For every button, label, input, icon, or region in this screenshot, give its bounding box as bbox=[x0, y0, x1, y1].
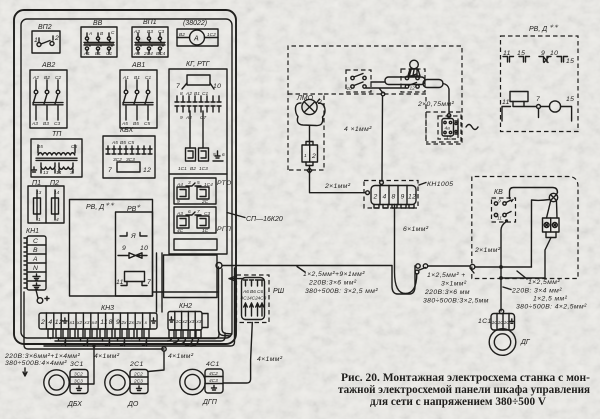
thermal relay РТО bbox=[174, 178, 232, 205]
svg-text:2х: 2х bbox=[128, 320, 135, 326]
limit switch КВ bbox=[492, 189, 516, 222]
connector РШ body bbox=[241, 278, 267, 320]
svg-text:РТО: РТО bbox=[217, 180, 232, 187]
circuit breaker АВ1 bbox=[120, 62, 157, 128]
svg-text:380÷500В:4×4мм²: 380÷500В:4×4мм² bbox=[5, 360, 67, 367]
svg-text:С: С bbox=[111, 30, 115, 36]
callout СП—16К20 bbox=[227, 213, 283, 224]
svg-text:КГ, РТГ: КГ, РТГ bbox=[186, 61, 211, 68]
wire fuse block down bbox=[545, 238, 551, 279]
svg-text:7: 7 bbox=[536, 96, 540, 103]
svg-text:х3: х3 bbox=[195, 319, 201, 325]
КН2 tab merge wires bbox=[168, 338, 199, 346]
motor ДО bbox=[105, 361, 148, 408]
svg-text:9: 9 bbox=[177, 199, 180, 205]
link bar 1 bbox=[385, 77, 425, 85]
svg-text:КБХ: КБХ bbox=[120, 127, 133, 134]
wire КВ down to bus bbox=[501, 222, 506, 311]
ammeter А (38022) bbox=[177, 20, 218, 46]
svg-text:ДГ: ДГ bbox=[520, 339, 531, 346]
svg-text:2×1мм²: 2×1мм² bbox=[474, 247, 501, 254]
junction to ДО bbox=[162, 347, 166, 351]
svg-text:4а: 4а bbox=[445, 126, 451, 132]
motor ДГП bbox=[180, 361, 223, 406]
limit switch (left, дверной) bbox=[346, 70, 371, 92]
svg-text:1С: 1С bbox=[504, 320, 511, 326]
svg-text:5: 5 bbox=[213, 152, 216, 158]
arrow РШ to panel bbox=[229, 276, 243, 280]
lower horizontal wire bbox=[501, 277, 545, 279]
connector КБХ bbox=[103, 127, 155, 178]
svg-text:2х: 2х bbox=[135, 320, 142, 326]
svg-text:220В:3×6 мм: 220В:3×6 мм bbox=[424, 289, 470, 296]
svg-text:1С3: 1С3 bbox=[199, 166, 208, 172]
svg-text:15: 15 bbox=[566, 96, 574, 103]
svg-text:4: 4 bbox=[56, 217, 59, 223]
svg-text:А3: А3 bbox=[133, 29, 140, 35]
svg-text:＊＊: ＊＊ bbox=[549, 24, 559, 30]
wire to ДО bbox=[148, 351, 164, 372]
svg-text:7: 7 bbox=[108, 167, 112, 174]
wire connector down bbox=[310, 166, 365, 193]
svg-text:В2: В2 bbox=[190, 166, 196, 172]
svg-text:СП—16К20: СП—16К20 bbox=[246, 216, 283, 223]
switch ВП2 bbox=[32, 24, 60, 53]
svg-text:4С1: 4С1 bbox=[206, 361, 220, 368]
svg-text:ДГП: ДГП bbox=[202, 399, 218, 406]
svg-text:2×0,75мм²: 2×0,75мм² bbox=[417, 101, 454, 108]
svg-text:2: 2 bbox=[40, 319, 45, 326]
switch ВП1 bbox=[132, 19, 168, 57]
svg-text:В2: В2 bbox=[179, 32, 185, 38]
panel outer border bbox=[14, 10, 236, 344]
wire lamp to connector bbox=[309, 126, 311, 146]
svg-text:В5: В5 bbox=[133, 121, 139, 127]
svg-text:Я: Я bbox=[130, 233, 136, 240]
svg-text:8: 8 bbox=[109, 319, 113, 326]
svg-text:10: 10 bbox=[140, 245, 148, 252]
svg-text:х2: х2 bbox=[181, 319, 187, 325]
contactor КГ, РТГ bbox=[169, 61, 227, 174]
svg-text:7: 7 bbox=[176, 83, 180, 90]
svg-text:2С2: 2С2 bbox=[133, 372, 143, 378]
svg-text:1×2,5мм²: 1×2,5мм² bbox=[528, 279, 560, 286]
svg-text:10: 10 bbox=[347, 86, 353, 92]
svg-text:＊: ＊ bbox=[136, 204, 141, 210]
svg-text:х4: х4 bbox=[91, 320, 97, 326]
spare terminal rect bbox=[174, 239, 217, 250]
svg-text:КН1005: КН1005 bbox=[427, 181, 453, 188]
svg-text:КН2: КН2 bbox=[179, 303, 192, 310]
svg-text:В: В bbox=[33, 247, 38, 254]
svg-text:4С3: 4С3 bbox=[258, 296, 267, 302]
svg-text:12: 12 bbox=[410, 86, 416, 92]
svg-text:11: 11 bbox=[116, 279, 124, 286]
svg-text:Рис. 20. Монтажная электросхем: Рис. 20. Монтажная электросхема станка с… bbox=[341, 372, 590, 384]
svg-text:С5: С5 bbox=[128, 140, 134, 146]
link bar 2 bbox=[423, 80, 443, 88]
svg-text:2С3: 2С3 bbox=[133, 379, 143, 385]
svg-text:С1: С1 bbox=[106, 51, 112, 57]
svg-text:2С4: 2С4 bbox=[143, 51, 153, 57]
svg-text:АВ1: АВ1 bbox=[131, 62, 145, 69]
svg-text:для сети с напряжением 380÷500: для сети с напряжением 380÷500 V bbox=[370, 396, 547, 408]
svg-text:2С1: 2С1 bbox=[129, 361, 144, 368]
svg-text:С6: С6 bbox=[257, 289, 263, 295]
svg-text:ВП1: ВП1 bbox=[143, 19, 157, 26]
svg-text:1С: 1С bbox=[176, 319, 183, 325]
svg-text:х3: х3 bbox=[188, 319, 194, 325]
bus spec callout (right) bbox=[423, 268, 489, 305]
svg-text:А1: А1 bbox=[83, 51, 90, 57]
svg-text:1С: 1С bbox=[202, 228, 209, 234]
svg-text:380÷500В:3×2,5мм: 380÷500В:3×2,5мм bbox=[423, 298, 489, 305]
svg-text:тажной электросхемой панели шк: тажной электросхемой панели шкафа управл… bbox=[338, 384, 590, 396]
igniter circle bbox=[549, 193, 557, 201]
svg-text:10: 10 bbox=[213, 83, 221, 90]
svg-text:6: 6 bbox=[188, 209, 191, 215]
svg-text:С5: С5 bbox=[71, 144, 77, 150]
svg-text:9: 9 bbox=[498, 199, 501, 205]
wire КН1005 down to bus bbox=[395, 205, 417, 294]
svg-text:ВП2: ВП2 bbox=[38, 24, 52, 31]
svg-text:1×2,5мм² +: 1×2,5мм² + bbox=[427, 272, 466, 279]
wire down to КН1005 bbox=[381, 96, 384, 181]
svg-text:2: 2 bbox=[373, 194, 378, 201]
panel inner border bbox=[21, 19, 232, 338]
svg-text:2: 2 bbox=[311, 153, 316, 160]
terminal strip КН3 bbox=[39, 305, 157, 329]
svg-text:11: 11 bbox=[100, 319, 108, 326]
svg-text:1: 1 bbox=[34, 37, 38, 44]
svg-text:7: 7 bbox=[197, 209, 200, 215]
svg-text:ДБХ: ДБХ bbox=[67, 401, 82, 408]
wire spec labels right bbox=[503, 271, 587, 311]
main bus wire bbox=[216, 263, 532, 295]
svg-text:220В:3×6 мм²: 220В:3×6 мм² bbox=[308, 280, 357, 287]
junction on bundle bbox=[92, 344, 95, 347]
svg-text:2: 2 bbox=[54, 35, 59, 42]
svg-text:9: 9 bbox=[401, 194, 405, 201]
svg-text:А5: А5 bbox=[111, 140, 118, 146]
svg-text:220В:3×6мм²+1×4мм²: 220В:3×6мм²+1×4мм² bbox=[4, 353, 80, 360]
wire pair to КН2 bbox=[219, 267, 233, 336]
svg-text:2С: 2С bbox=[201, 199, 209, 205]
svg-text:С5: С5 bbox=[144, 121, 150, 127]
connector 4а dashed boxes bbox=[426, 112, 461, 144]
svg-text:2х: 2х bbox=[120, 320, 127, 326]
svg-text:1: 1 bbox=[304, 153, 307, 159]
svg-text:4: 4 bbox=[48, 319, 52, 326]
svg-text:4С2: 4С2 bbox=[209, 371, 218, 377]
svg-text:А: А bbox=[193, 36, 199, 43]
junction box (empty) bbox=[164, 255, 218, 298]
relay РВ, Д** (top right) bbox=[501, 24, 579, 132]
svg-text:х2: х2 bbox=[76, 320, 82, 326]
thermal relay РГП bbox=[174, 207, 231, 234]
motor ДГ bbox=[478, 309, 531, 355]
svg-text:1: 1 bbox=[38, 217, 41, 223]
svg-text:4: 4 bbox=[383, 194, 387, 201]
svg-text:ВВ: ВВ bbox=[93, 20, 103, 27]
wire pair to КН3 bbox=[157, 253, 163, 312]
svg-text:12: 12 bbox=[55, 319, 63, 326]
svg-text:4С: 4С bbox=[177, 228, 184, 234]
ground terminal + bbox=[36, 290, 49, 303]
svg-text:А6: А6 bbox=[242, 289, 249, 295]
svg-text:КН3: КН3 bbox=[101, 305, 114, 312]
svg-text:11: 11 bbox=[497, 216, 502, 222]
connector 1|2 bbox=[302, 142, 318, 166]
push-button with head bbox=[401, 60, 425, 92]
svg-text:4 ×1мм²: 4 ×1мм² bbox=[344, 126, 372, 133]
terminal strip КН2 bbox=[168, 303, 208, 330]
wire РШ to ДГП bbox=[224, 323, 253, 384]
svg-text:3×1мм²: 3×1мм² bbox=[441, 281, 467, 288]
right dashed enclosure bbox=[472, 177, 578, 279]
svg-text:КН1: КН1 bbox=[26, 228, 39, 235]
svg-text:220В: 3×4 мм²: 220В: 3×4 мм² bbox=[511, 288, 562, 295]
svg-text:4×1мм²: 4×1мм² bbox=[168, 353, 194, 360]
svg-text:А: А bbox=[32, 256, 38, 263]
svg-text:12: 12 bbox=[446, 136, 452, 142]
terminal block КН1005 bbox=[364, 181, 453, 209]
svg-text:15: 15 bbox=[566, 58, 574, 65]
svg-text:3: 3 bbox=[70, 170, 73, 176]
svg-text:4С3: 4С3 bbox=[209, 378, 218, 384]
svg-text:РВ, Д: РВ, Д bbox=[86, 204, 104, 211]
svg-text:ВС4: ВС4 bbox=[156, 51, 166, 57]
connector РШ dashed bbox=[237, 275, 270, 323]
svg-text:РГП: РГП bbox=[217, 226, 231, 233]
tab drop wires bbox=[51, 338, 147, 346]
connector 4а bbox=[442, 114, 458, 142]
svg-text:＊＊: ＊＊ bbox=[105, 202, 115, 208]
svg-text:7: 7 bbox=[147, 279, 151, 286]
svg-text:3: 3 bbox=[188, 180, 191, 186]
circuit breaker АВ2 bbox=[30, 62, 67, 128]
svg-text:3С2: 3С2 bbox=[74, 372, 83, 378]
svg-text:В3: В3 bbox=[147, 29, 153, 35]
svg-text:1С1: 1С1 bbox=[478, 318, 492, 325]
svg-text:6×1мм²: 6×1мм² bbox=[403, 226, 429, 233]
wire between switches bbox=[371, 81, 385, 83]
svg-text:9: 9 bbox=[180, 115, 183, 121]
svg-text:12: 12 bbox=[408, 194, 416, 201]
svg-text:6: 6 bbox=[222, 152, 225, 158]
svg-text:А2: А2 bbox=[185, 115, 192, 121]
svg-text:12: 12 bbox=[143, 167, 151, 174]
svg-text:А: А bbox=[88, 31, 92, 37]
svg-text:ДО: ДО bbox=[127, 401, 139, 408]
svg-text:х: х bbox=[144, 321, 148, 326]
fuses П1 П2 bbox=[28, 180, 64, 223]
contactor column container bbox=[169, 69, 227, 254]
wire to ДБХ bbox=[88, 346, 94, 384]
svg-text:А4: А4 bbox=[133, 51, 140, 57]
svg-text:1×2,5 мм²: 1×2,5 мм² bbox=[533, 296, 568, 303]
tilde mark bbox=[466, 125, 478, 130]
wire from left switch to node bbox=[366, 88, 406, 93]
lamp enclosure ЛМО dashed bbox=[288, 94, 324, 170]
svg-text:В3: В3 bbox=[43, 121, 49, 127]
svg-text:9: 9 bbox=[116, 319, 120, 326]
svg-text:9: 9 bbox=[122, 245, 126, 252]
svg-text:А3: А3 bbox=[31, 121, 38, 127]
svg-text:х3: х3 bbox=[83, 320, 89, 326]
svg-text:С3: С3 bbox=[54, 121, 60, 127]
svg-text:1С1: 1С1 bbox=[178, 166, 187, 172]
svg-text:С: С bbox=[33, 238, 38, 245]
bus spec callout (left) bbox=[297, 267, 378, 296]
svg-text:5: 5 bbox=[197, 180, 200, 186]
svg-text:4×1мм²: 4×1мм² bbox=[94, 353, 120, 360]
svg-text:В5: В5 bbox=[120, 140, 126, 146]
svg-text:1С2: 1С2 bbox=[207, 32, 216, 38]
svg-text:380÷500В: 4×2,5мм²: 380÷500В: 4×2,5мм² bbox=[516, 304, 587, 311]
svg-text:В6: В6 bbox=[250, 289, 256, 295]
terminal strip КН1 bbox=[24, 228, 46, 290]
svg-text:ТП: ТП bbox=[52, 131, 62, 138]
svg-text:В1: В1 bbox=[95, 51, 101, 57]
svg-text:3С3: 3С3 bbox=[74, 379, 83, 385]
svg-text:11: 11 bbox=[502, 99, 510, 106]
wire from igniter left down bbox=[531, 200, 549, 268]
transformer ТП bbox=[31, 131, 82, 177]
motor ДБХ bbox=[44, 361, 88, 408]
relay box РВ, Д** bbox=[70, 200, 153, 297]
КН3 lower tabs bbox=[48, 329, 149, 338]
svg-text:РВ, Д: РВ, Д bbox=[529, 26, 547, 33]
svg-text:N: N bbox=[33, 265, 38, 272]
svg-text:х1: х1 bbox=[69, 320, 75, 326]
lamp ЛМО bbox=[295, 95, 325, 126]
КН2 lower tabs bbox=[169, 330, 201, 338]
svg-text:2×1мм²: 2×1мм² bbox=[324, 183, 351, 190]
node circle bbox=[381, 92, 385, 96]
machine dashed enclosure bbox=[288, 46, 462, 170]
svg-text:КВ: КВ bbox=[494, 189, 503, 196]
КН3 tab merge wires bbox=[62, 341, 147, 346]
wire bundle below panel bbox=[24, 268, 235, 349]
svg-text:1×2,5мм²+9×1мм²: 1×2,5мм²+9×1мм² bbox=[303, 271, 365, 278]
svg-text:380÷500В: 3×2,5 мм²: 380÷500В: 3×2,5 мм² bbox=[305, 288, 378, 295]
svg-text:8: 8 bbox=[392, 194, 396, 201]
svg-text:4×1мм²: 4×1мм² bbox=[257, 356, 283, 363]
svg-text:3С1: 3С1 bbox=[70, 361, 84, 368]
wire spec labels bottom left bbox=[4, 353, 80, 376]
svg-text:РШ: РШ bbox=[273, 288, 285, 295]
svg-text:13: 13 bbox=[43, 170, 49, 176]
wire loop КВ to transformer bbox=[510, 188, 558, 199]
svg-text:АВ2: АВ2 bbox=[41, 62, 55, 69]
svg-text:(38022): (38022) bbox=[183, 20, 207, 27]
fuse block ⊕⊕ bbox=[543, 202, 560, 238]
svg-text:С3: С3 bbox=[158, 29, 164, 35]
svg-text:14: 14 bbox=[56, 170, 62, 176]
wire bar2 to connector 4а bbox=[443, 84, 449, 115]
switch ВВ bbox=[81, 20, 117, 57]
